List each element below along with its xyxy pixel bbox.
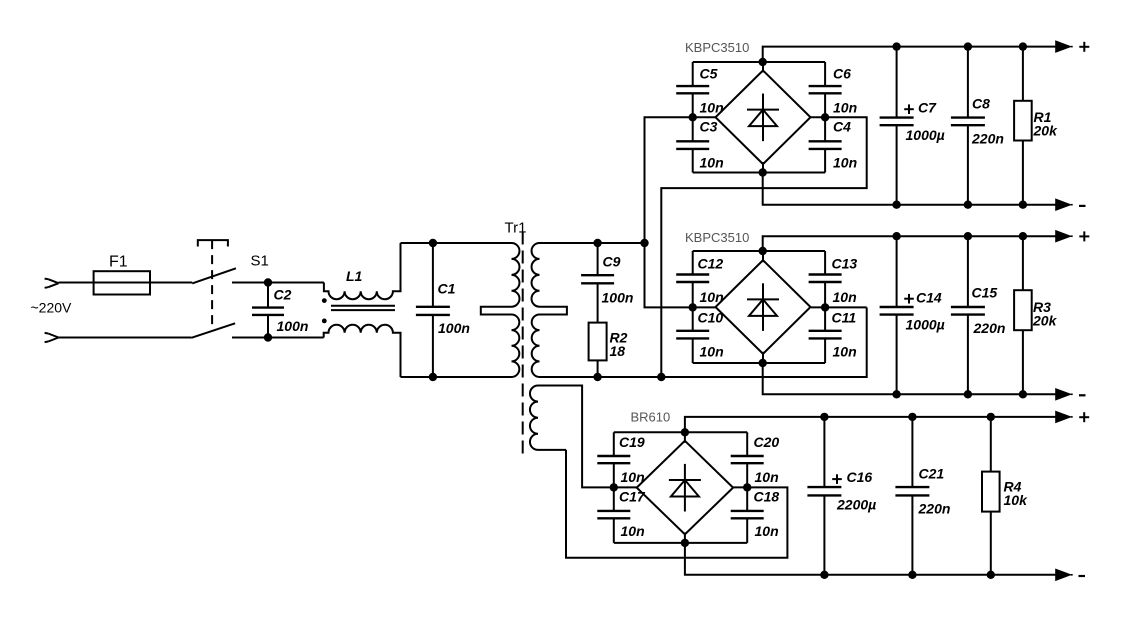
label C15 bbox=[972, 285, 998, 301]
node junction bbox=[759, 58, 767, 66]
inductor L1 top winding bbox=[324, 243, 401, 299]
transformer Tr1 secondary winding 1 bbox=[532, 243, 567, 377]
label C9 bbox=[603, 254, 621, 270]
label 10n bbox=[621, 523, 645, 539]
label C17 bbox=[619, 489, 646, 505]
label 10n bbox=[700, 289, 724, 305]
node junction bbox=[593, 373, 601, 381]
node junction bbox=[892, 201, 900, 209]
node junction bbox=[593, 239, 601, 247]
svg-text:220n: 220n bbox=[918, 501, 951, 517]
svg-text:C15: C15 bbox=[972, 285, 998, 301]
node junction bbox=[820, 413, 828, 421]
label + polarity bbox=[832, 474, 842, 484]
capacitor C17 bbox=[597, 487, 630, 543]
wire bbox=[232, 337, 324, 339]
svg-text:10n: 10n bbox=[700, 343, 724, 359]
capacitor C7 bbox=[880, 47, 914, 205]
resistor R4 bbox=[982, 417, 1000, 575]
capacitor C2 bbox=[252, 283, 284, 338]
svg-text:L1: L1 bbox=[346, 268, 363, 284]
svg-text:10n: 10n bbox=[700, 100, 724, 116]
rectifier bridge KBPC3510 #1 bbox=[716, 62, 811, 173]
wire bbox=[645, 117, 717, 307]
node junction bbox=[964, 42, 972, 50]
capacitor C6 bbox=[809, 62, 842, 117]
svg-text:10n: 10n bbox=[833, 100, 857, 116]
node junction bbox=[429, 373, 437, 381]
label 20k bbox=[1033, 123, 1059, 139]
svg-text:1000µ: 1000µ bbox=[906, 316, 945, 332]
svg-text:C17: C17 bbox=[619, 489, 646, 505]
label + polarity bbox=[904, 294, 914, 304]
label C4 bbox=[833, 119, 851, 135]
wire bbox=[693, 172, 825, 174]
label - bbox=[1079, 575, 1086, 577]
svg-text:C20: C20 bbox=[754, 434, 780, 450]
svg-text:10n: 10n bbox=[755, 469, 779, 485]
svg-text:C11: C11 bbox=[832, 309, 857, 325]
capacitor C21 bbox=[895, 417, 929, 575]
capacitor C15 bbox=[951, 236, 985, 394]
label KBPC3510 bbox=[685, 230, 749, 245]
node junction bbox=[689, 113, 697, 121]
capacitor C13 bbox=[809, 251, 842, 307]
label C18 bbox=[754, 489, 780, 505]
node output - terminal bbox=[1056, 199, 1073, 210]
label 10n bbox=[833, 155, 857, 171]
capacitor C19 bbox=[597, 432, 630, 487]
wire bbox=[763, 47, 1057, 62]
wire bbox=[763, 173, 1057, 205]
svg-text:F1: F1 bbox=[109, 254, 128, 271]
svg-text:C19: C19 bbox=[619, 434, 645, 450]
svg-text:20k: 20k bbox=[1032, 313, 1058, 329]
rectifier bridge KBPC3510 #2 bbox=[716, 252, 811, 363]
node junction bbox=[987, 413, 995, 421]
svg-text:10n: 10n bbox=[621, 523, 645, 539]
node junction bbox=[429, 239, 437, 247]
label + polarity bbox=[904, 104, 914, 114]
label C13 bbox=[832, 256, 858, 272]
svg-text:C5: C5 bbox=[700, 66, 718, 82]
label 100n bbox=[438, 320, 470, 336]
node output + terminal bbox=[1056, 411, 1073, 422]
node junction bbox=[908, 413, 916, 421]
node junction bbox=[264, 278, 272, 286]
node junction bbox=[964, 201, 972, 209]
label C14 bbox=[916, 290, 942, 306]
capacitor C8 bbox=[951, 47, 985, 205]
node junction bbox=[1019, 390, 1027, 398]
node junction bbox=[610, 483, 618, 491]
label 220n bbox=[973, 320, 1006, 336]
label 2200µ bbox=[836, 497, 876, 513]
label C6 bbox=[833, 66, 851, 82]
capacitor C16 bbox=[807, 417, 841, 575]
transformer Tr1 primary winding bbox=[481, 243, 520, 377]
node junction bbox=[681, 428, 689, 436]
node junction bbox=[964, 232, 972, 240]
svg-text:KBPC3510: KBPC3510 bbox=[685, 40, 749, 55]
node junction bbox=[759, 359, 767, 367]
svg-text:10n: 10n bbox=[833, 343, 857, 359]
wire bbox=[59, 337, 192, 339]
label Tr1 bbox=[505, 220, 527, 237]
svg-text:220n: 220n bbox=[971, 131, 1004, 147]
node junction bbox=[821, 113, 829, 121]
resistor R2 bbox=[589, 323, 607, 377]
label C2 bbox=[274, 287, 292, 303]
svg-text:1000µ: 1000µ bbox=[906, 127, 945, 143]
label C16 bbox=[847, 469, 873, 485]
wire bbox=[811, 306, 867, 308]
capacitor C11 bbox=[809, 307, 842, 363]
svg-text:C13: C13 bbox=[832, 256, 858, 272]
resistor R3 bbox=[1014, 236, 1032, 394]
svg-text:C18: C18 bbox=[754, 489, 780, 505]
resistor R1 bbox=[1014, 47, 1032, 205]
label C10 bbox=[698, 309, 724, 325]
label 10n bbox=[833, 289, 857, 305]
wire bbox=[401, 376, 512, 378]
label 100n bbox=[602, 289, 634, 305]
wire bbox=[693, 362, 825, 364]
svg-text:C7: C7 bbox=[918, 100, 937, 116]
capacitor C10 bbox=[676, 307, 709, 363]
svg-text:2200µ: 2200µ bbox=[836, 497, 876, 513]
svg-text:10n: 10n bbox=[621, 469, 645, 485]
svg-text:10n: 10n bbox=[700, 155, 724, 171]
wire bbox=[685, 417, 1057, 432]
label 10n bbox=[755, 469, 779, 485]
label C19 bbox=[619, 434, 645, 450]
label R4 bbox=[1004, 479, 1022, 495]
label 10n bbox=[700, 100, 724, 116]
label 10n bbox=[700, 155, 724, 171]
node junction bbox=[681, 539, 689, 547]
wire bbox=[59, 282, 193, 284]
node junction bbox=[964, 390, 972, 398]
svg-text:C3: C3 bbox=[700, 119, 718, 135]
svg-text:100n: 100n bbox=[602, 289, 634, 305]
wire bbox=[685, 543, 1057, 575]
node input terminal bottom (line) bbox=[45, 333, 59, 342]
label + bbox=[1079, 231, 1089, 241]
node junction bbox=[264, 333, 272, 341]
transformer Tr1 secondary winding 2 bbox=[530, 386, 582, 450]
switch S1 top blade bbox=[192, 268, 236, 283]
label 18 bbox=[610, 343, 626, 359]
label 10n bbox=[833, 100, 857, 116]
wire bbox=[232, 282, 324, 284]
svg-text:18: 18 bbox=[610, 343, 626, 359]
label S1 bbox=[251, 253, 269, 270]
node junction bbox=[743, 483, 751, 491]
svg-text:C16: C16 bbox=[847, 469, 873, 485]
svg-text:100n: 100n bbox=[277, 318, 309, 334]
label C8 bbox=[972, 96, 990, 112]
label L1 bbox=[346, 268, 363, 284]
label R2 bbox=[610, 329, 628, 345]
wire bbox=[693, 61, 825, 63]
label 10n bbox=[621, 469, 645, 485]
svg-text:220n: 220n bbox=[973, 320, 1006, 336]
svg-text:C1: C1 bbox=[438, 281, 456, 297]
node junction bbox=[759, 247, 767, 255]
inductor L1 core bbox=[331, 306, 395, 310]
node output + terminal bbox=[1056, 231, 1073, 242]
wire bbox=[693, 250, 825, 252]
svg-text:10k: 10k bbox=[1004, 492, 1029, 508]
label + bbox=[1079, 412, 1089, 422]
label 10n bbox=[755, 523, 779, 539]
wire bbox=[540, 242, 645, 244]
label BR610 bbox=[631, 410, 671, 425]
label C12 bbox=[698, 256, 724, 272]
svg-text:10n: 10n bbox=[833, 155, 857, 171]
capacitor C12 bbox=[676, 251, 709, 307]
wire bbox=[614, 542, 747, 544]
capacitor C9 bbox=[581, 243, 614, 323]
node junction bbox=[820, 571, 828, 579]
node junction bbox=[908, 571, 916, 579]
label C21 bbox=[919, 466, 945, 482]
inductor L1 phase dot bbox=[322, 319, 327, 324]
label R1 bbox=[1034, 109, 1052, 125]
label C11 bbox=[832, 309, 857, 325]
node output - terminal bbox=[1056, 389, 1073, 400]
label R3 bbox=[1033, 299, 1051, 315]
svg-text:KBPC3510: KBPC3510 bbox=[685, 230, 749, 245]
svg-text:C2: C2 bbox=[274, 287, 292, 303]
svg-text:C10: C10 bbox=[698, 309, 724, 325]
label - bbox=[1079, 205, 1086, 207]
switch S1 bracket bbox=[198, 240, 228, 246]
label C3 bbox=[700, 119, 718, 135]
wire bbox=[763, 236, 1057, 251]
label C1 bbox=[438, 281, 456, 297]
transformer Tr1 core (dashed) bbox=[522, 232, 524, 458]
svg-text:C14: C14 bbox=[916, 290, 942, 306]
label ~220V bbox=[31, 300, 73, 316]
node junction bbox=[640, 239, 648, 247]
node junction bbox=[892, 390, 900, 398]
fuse F1 bbox=[94, 271, 150, 294]
label 10n bbox=[833, 343, 857, 359]
node junction bbox=[1019, 42, 1027, 50]
node output + terminal bbox=[1056, 41, 1073, 52]
node junction bbox=[759, 168, 767, 176]
label 10k bbox=[1004, 492, 1029, 508]
label 100n bbox=[277, 318, 309, 334]
svg-text:C12: C12 bbox=[698, 256, 724, 272]
svg-text:~220V: ~220V bbox=[31, 300, 73, 316]
label - bbox=[1079, 394, 1086, 396]
svg-text:S1: S1 bbox=[251, 253, 269, 270]
wire bbox=[661, 117, 866, 377]
wire bbox=[538, 386, 637, 488]
svg-text:20k: 20k bbox=[1033, 123, 1059, 139]
label 1000µ bbox=[906, 127, 945, 143]
svg-text:C8: C8 bbox=[972, 96, 990, 112]
switch S1 bottom blade bbox=[191, 323, 235, 338]
svg-text:10n: 10n bbox=[700, 289, 724, 305]
svg-text:10n: 10n bbox=[833, 289, 857, 305]
node junction bbox=[689, 303, 697, 311]
capacitor C20 bbox=[731, 432, 764, 487]
capacitor C18 bbox=[731, 487, 764, 543]
node junction bbox=[1019, 232, 1027, 240]
node junction bbox=[1019, 201, 1027, 209]
node junction bbox=[657, 373, 665, 381]
svg-text:10n: 10n bbox=[755, 523, 779, 539]
label C5 bbox=[700, 66, 718, 82]
label + bbox=[1079, 42, 1089, 52]
label KBPC3510 bbox=[685, 40, 749, 55]
svg-text:C21: C21 bbox=[919, 466, 945, 482]
capacitor C5 bbox=[676, 62, 709, 117]
wire bbox=[763, 363, 1057, 394]
node junction bbox=[987, 571, 995, 579]
node ~220V input terminal (line) bbox=[45, 279, 59, 288]
label C7 bbox=[918, 100, 937, 116]
node junction bbox=[821, 303, 829, 311]
switch S1 gang link (dashed) bbox=[211, 240, 213, 330]
capacitor C14 bbox=[880, 236, 914, 394]
node junction bbox=[892, 42, 900, 50]
label 220n bbox=[971, 131, 1004, 147]
capacitor C1 bbox=[416, 243, 450, 377]
node junction bbox=[892, 232, 900, 240]
label 10n bbox=[700, 343, 724, 359]
wire bbox=[401, 242, 512, 244]
capacitor C4 bbox=[809, 117, 842, 172]
svg-text:C4: C4 bbox=[833, 119, 851, 135]
label F1 bbox=[109, 254, 128, 271]
inductor L1 bottom winding bbox=[324, 325, 401, 377]
label 220n bbox=[918, 501, 951, 517]
node output - terminal bbox=[1056, 569, 1073, 580]
label C20 bbox=[754, 434, 780, 450]
label 1000µ bbox=[906, 316, 945, 332]
wire bbox=[614, 431, 747, 433]
wire bbox=[540, 307, 867, 377]
svg-text:100n: 100n bbox=[438, 320, 470, 336]
svg-text:C9: C9 bbox=[603, 254, 621, 270]
wire bbox=[566, 450, 787, 558]
svg-text:BR610: BR610 bbox=[631, 410, 671, 425]
rectifier bridge BR610 bbox=[637, 432, 733, 543]
svg-text:C6: C6 bbox=[833, 66, 851, 82]
capacitor C3 bbox=[676, 117, 709, 172]
label 20k bbox=[1032, 313, 1058, 329]
inductor L1 phase dot bbox=[322, 298, 327, 303]
